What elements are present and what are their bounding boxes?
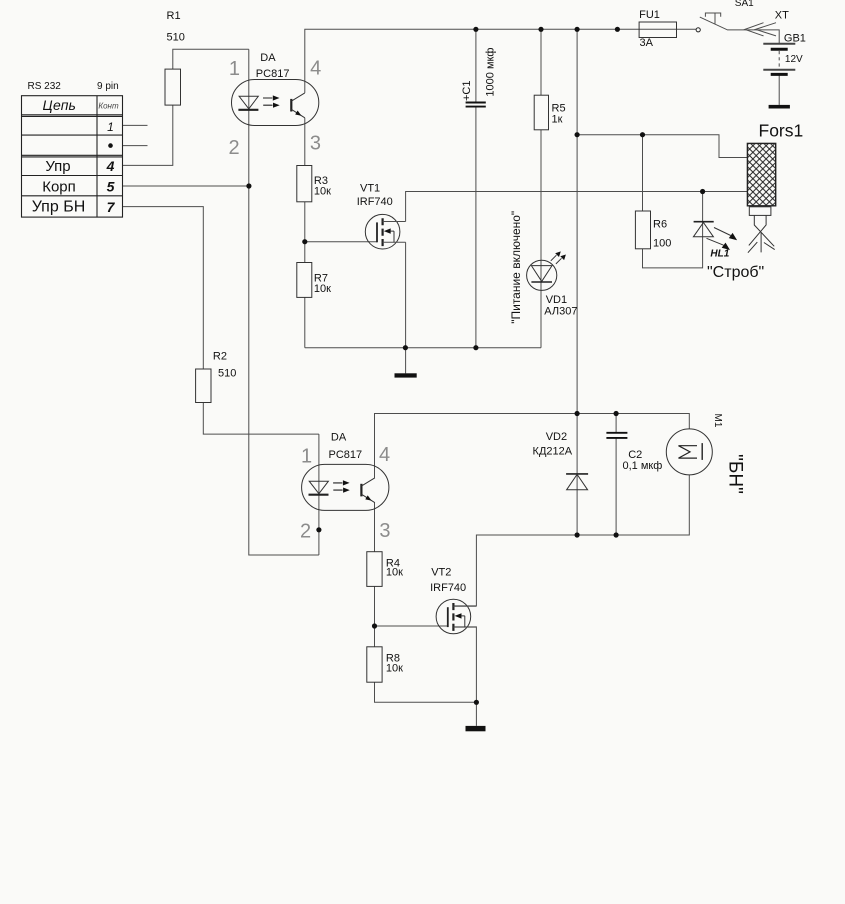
svg-text:GB1: GB1 <box>784 33 806 45</box>
svg-text:"Питание включено": "Питание включено" <box>509 211 523 324</box>
svg-text:RS 232: RS 232 <box>28 81 62 92</box>
svg-text:Конт: Конт <box>98 102 119 111</box>
svg-text:4: 4 <box>310 57 321 79</box>
svg-text:Корп: Корп <box>42 178 76 195</box>
svg-text:3A: 3A <box>640 37 654 49</box>
svg-text:"Строб": "Строб" <box>707 264 764 281</box>
svg-text:Цепь: Цепь <box>43 97 76 113</box>
svg-text:3: 3 <box>379 520 390 542</box>
svg-text:Fors1: Fors1 <box>759 121 804 141</box>
svg-text:М1: М1 <box>712 414 723 428</box>
svg-text:Упр БН: Упр БН <box>32 199 86 216</box>
svg-text:1: 1 <box>229 58 240 80</box>
svg-text:DA: DA <box>260 52 276 64</box>
svg-text:IRF740: IRF740 <box>357 196 393 208</box>
svg-text:2: 2 <box>300 520 311 542</box>
svg-text:+C1: +C1 <box>461 81 473 102</box>
svg-text:1: 1 <box>301 446 312 468</box>
svg-text:10к: 10к <box>314 283 331 295</box>
svg-text:VT2: VT2 <box>431 566 451 578</box>
svg-text:VT1: VT1 <box>360 183 380 195</box>
svg-text:1к: 1к <box>552 113 563 125</box>
svg-text:510: 510 <box>218 368 236 380</box>
svg-text:PC817: PC817 <box>256 68 290 80</box>
svg-text:XT: XT <box>775 10 789 22</box>
svg-text:12V: 12V <box>785 54 803 65</box>
svg-text:3: 3 <box>310 132 321 154</box>
svg-text:5: 5 <box>107 178 115 194</box>
svg-text:1000 мкф: 1000 мкф <box>484 48 496 97</box>
svg-text:R2: R2 <box>213 350 227 362</box>
svg-text:1: 1 <box>107 120 114 134</box>
svg-text:10к: 10к <box>314 186 331 198</box>
svg-text:АЛ307: АЛ307 <box>544 306 577 318</box>
svg-text:0,1 мкф: 0,1 мкф <box>623 460 663 472</box>
svg-text:VD1: VD1 <box>546 294 567 306</box>
svg-text:10к: 10к <box>386 663 403 675</box>
svg-text:10к: 10к <box>386 566 403 578</box>
svg-text:"БН": "БН" <box>724 454 745 494</box>
svg-text:4: 4 <box>379 444 390 466</box>
svg-text:FU1: FU1 <box>639 9 660 21</box>
svg-text:2: 2 <box>229 137 240 159</box>
svg-text:C2: C2 <box>628 449 642 461</box>
svg-text:510: 510 <box>167 31 185 43</box>
svg-text:Упр: Упр <box>45 158 70 175</box>
svg-text:DA: DA <box>331 431 347 443</box>
svg-text:КД212А: КД212А <box>533 445 573 457</box>
svg-text:100: 100 <box>653 237 671 249</box>
svg-text:4: 4 <box>106 158 115 174</box>
svg-text:IRF740: IRF740 <box>430 582 466 594</box>
svg-text:VD2: VD2 <box>546 431 567 443</box>
svg-text:PC817: PC817 <box>329 449 363 461</box>
svg-text:7: 7 <box>107 199 116 215</box>
svg-text:SA1: SA1 <box>735 0 754 9</box>
svg-text:R1: R1 <box>167 10 181 22</box>
svg-text:HL1: HL1 <box>710 249 729 260</box>
svg-text:R6: R6 <box>653 219 667 231</box>
svg-text:9 pin: 9 pin <box>97 81 119 92</box>
